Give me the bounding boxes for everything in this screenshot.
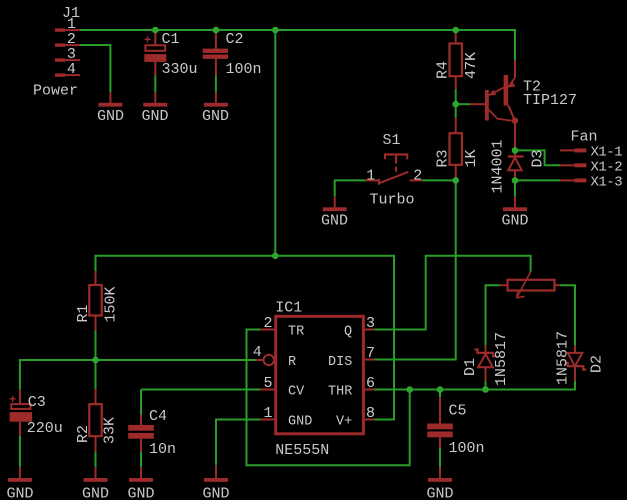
resistor R2 bbox=[89, 389, 101, 451]
svg-text:R: R bbox=[288, 355, 296, 370]
capacitor C3 bbox=[9, 390, 32, 436]
svg-text:100n: 100n bbox=[226, 61, 262, 78]
svg-text:1: 1 bbox=[264, 405, 273, 422]
wire pot left to D1 bbox=[486, 285, 500, 345]
wire R2 top bbox=[95, 360, 97, 389]
ground GND IC1 bbox=[203, 465, 230, 500]
wire Q pin3 to pot wiper bbox=[375, 256, 531, 330]
svg-text:C1: C1 bbox=[162, 31, 180, 48]
svg-text:1N5817: 1N5817 bbox=[493, 332, 510, 386]
ground GND C4 bbox=[128, 467, 155, 500]
svg-text:C2: C2 bbox=[226, 31, 244, 48]
svg-text:GND: GND bbox=[321, 213, 348, 230]
wire +12V top rail bbox=[80, 29, 515, 31]
wire R2 bottom to GND bbox=[95, 451, 97, 467]
svg-text:7: 7 bbox=[366, 345, 375, 362]
wire base node to T2 bbox=[456, 103, 470, 105]
junction T2 base node bbox=[452, 101, 459, 108]
svg-text:6: 6 bbox=[366, 375, 375, 392]
svg-text:C5: C5 bbox=[449, 403, 467, 420]
ground GND C2 bbox=[202, 92, 229, 125]
junction THR/TR bbox=[406, 386, 413, 393]
junction divider node bbox=[92, 357, 99, 364]
ground GND D3 bbox=[502, 197, 529, 230]
svg-text:GND: GND bbox=[128, 486, 155, 500]
svg-text:R3: R3 bbox=[435, 149, 452, 167]
junction R3/S1/DIS node bbox=[452, 177, 459, 184]
svg-text:100n: 100n bbox=[449, 440, 485, 457]
svg-text:1K: 1K bbox=[463, 149, 480, 167]
svg-text:TIP127: TIP127 bbox=[523, 92, 577, 109]
svg-text:NE555N: NE555N bbox=[275, 442, 329, 459]
svg-text:5: 5 bbox=[264, 375, 273, 392]
svg-text:Q: Q bbox=[344, 324, 352, 339]
svg-text:10n: 10n bbox=[149, 441, 176, 458]
junction D3 cathode bbox=[512, 147, 519, 154]
wire +12V mid rail bbox=[96, 255, 395, 257]
wire +12V rail drop to T2 emitter bbox=[514, 29, 516, 61]
pin IC1-8 V+ bbox=[365, 419, 375, 421]
wire THR row bbox=[375, 389, 576, 391]
wire R1 bottom to divider node bbox=[95, 331, 97, 361]
svg-text:D1: D1 bbox=[462, 358, 479, 376]
svg-text:R2: R2 bbox=[75, 425, 92, 443]
svg-text:D3: D3 bbox=[530, 149, 547, 167]
wire C2 mid bbox=[215, 75, 217, 92]
connector X1 Fan bbox=[560, 148, 586, 182]
svg-text:IC1: IC1 bbox=[275, 300, 302, 317]
svg-text:GND: GND bbox=[203, 486, 230, 500]
pin IC1-1 GND bbox=[260, 419, 274, 421]
junction mid rail riser bbox=[272, 253, 279, 260]
svg-text:CV: CV bbox=[288, 384, 305, 399]
wire V+ pin8 riser bbox=[375, 255, 395, 420]
potentiometer bbox=[500, 272, 560, 298]
wire base node to R3 bbox=[455, 104, 457, 118]
svg-text:4: 4 bbox=[67, 61, 76, 78]
svg-text:C3: C3 bbox=[28, 394, 46, 411]
wire D1 bottom bbox=[485, 381, 487, 390]
wire C4 top bbox=[140, 390, 142, 416]
wire C3 bottom to GND bbox=[19, 436, 21, 467]
pin IC1-4 R inverted bbox=[256, 359, 264, 361]
wire S1 pin1 to GND bbox=[335, 180, 366, 196]
junction THR/D1 bbox=[482, 386, 489, 393]
wire S1 pin2 to node bbox=[422, 179, 456, 181]
capacitor C4 bbox=[128, 415, 154, 452]
resistor R1 bbox=[89, 271, 101, 330]
wire D3 anode to X1-3 bbox=[515, 179, 560, 181]
ground GND C3 bbox=[7, 467, 34, 500]
svg-text:330u: 330u bbox=[162, 61, 198, 78]
ground GND R2 bbox=[82, 467, 109, 500]
pin IC1-2 TR bbox=[260, 329, 274, 331]
svg-text:+: + bbox=[9, 393, 16, 407]
junction top rail C1 bbox=[152, 27, 159, 34]
wire R4 bottom to base node bbox=[455, 89, 457, 104]
svg-text:4: 4 bbox=[253, 344, 262, 361]
svg-text:THR: THR bbox=[328, 384, 352, 399]
wire C1 mid bbox=[154, 75, 156, 92]
wire C5 top bbox=[439, 390, 441, 398]
ground GND C1 bbox=[142, 92, 169, 125]
svg-text:GND: GND bbox=[502, 213, 529, 230]
svg-text:GND: GND bbox=[288, 414, 312, 429]
wire TR pin2 loop bbox=[247, 330, 410, 466]
svg-text:1: 1 bbox=[366, 168, 375, 185]
wire J1 pin2 to GND bbox=[80, 45, 110, 92]
svg-text:2: 2 bbox=[264, 315, 273, 332]
wire D3 cathode to X1-2 bbox=[515, 150, 560, 165]
svg-text:1N5817: 1N5817 bbox=[555, 331, 572, 385]
wire C4 bottom to GND bbox=[140, 452, 142, 467]
transistor T2 bbox=[470, 61, 518, 151]
svg-text:GND: GND bbox=[202, 108, 229, 125]
svg-text:TR: TR bbox=[288, 324, 304, 339]
wire +12V riser x275 bbox=[274, 30, 276, 256]
junction top rail C2 bbox=[213, 27, 220, 34]
ground GND S1 bbox=[321, 197, 348, 230]
svg-text:GND: GND bbox=[97, 108, 124, 125]
diode D1 1N5817 bbox=[475, 346, 497, 381]
svg-text:8: 8 bbox=[366, 405, 375, 422]
capacitor C5 bbox=[427, 397, 453, 448]
svg-text:X1-1: X1-1 bbox=[591, 144, 623, 160]
resistor R4 bbox=[450, 30, 462, 89]
svg-text:X1-3: X1-3 bbox=[591, 174, 623, 190]
wire D2 bottom bbox=[574, 381, 576, 391]
svg-text:220u: 220u bbox=[27, 420, 63, 437]
diode D2 1N5817 bbox=[565, 346, 587, 381]
svg-text:R1: R1 bbox=[75, 304, 92, 322]
pin IC1-7 DIS bbox=[365, 359, 375, 361]
svg-text:1N4001: 1N4001 bbox=[490, 139, 507, 193]
wire 555 GND pin1 bbox=[216, 420, 260, 466]
wire DIS pin7 to R3/S1 node bbox=[375, 180, 456, 359]
wire divider row to 555 R pin bbox=[20, 359, 258, 361]
switch S1 bbox=[366, 153, 423, 184]
ground GND J1 bbox=[97, 92, 124, 125]
wire pot right to D2 bbox=[560, 285, 575, 345]
svg-text:V+: V+ bbox=[336, 414, 352, 429]
junction THR/C5 bbox=[437, 386, 444, 393]
capacitor C1 bbox=[144, 30, 166, 75]
svg-text:47K: 47K bbox=[463, 52, 480, 79]
junction top rail riser bbox=[272, 27, 279, 34]
svg-text:R4: R4 bbox=[435, 61, 452, 79]
svg-text:GND: GND bbox=[427, 486, 454, 500]
svg-text:Fan: Fan bbox=[571, 129, 598, 146]
junction top rail R4 bbox=[452, 27, 459, 34]
connector J1 bbox=[55, 28, 80, 76]
wire R1 top bbox=[95, 255, 97, 271]
wire C5 bottom bbox=[439, 448, 441, 467]
capacitor C2 bbox=[203, 30, 228, 75]
svg-text:Power: Power bbox=[33, 82, 78, 99]
svg-text:C4: C4 bbox=[149, 408, 167, 425]
diode D3 bbox=[508, 150, 524, 180]
svg-text:Turbo: Turbo bbox=[370, 192, 415, 209]
junction D3 anode bbox=[512, 177, 519, 184]
wire CV row pin5 bbox=[141, 389, 260, 391]
svg-text:2: 2 bbox=[413, 168, 422, 185]
svg-text:GND: GND bbox=[142, 108, 169, 125]
svg-text:DIS: DIS bbox=[328, 355, 352, 370]
ground GND C5 bbox=[427, 467, 454, 500]
pin IC1-3 Q bbox=[365, 329, 375, 331]
resistor R3 bbox=[450, 118, 462, 180]
svg-text:3: 3 bbox=[366, 315, 375, 332]
svg-text:+: + bbox=[144, 34, 151, 48]
svg-text:X1-2: X1-2 bbox=[591, 159, 623, 175]
IC1 NE555N box bbox=[276, 316, 364, 434]
pin IC1-6 THR bbox=[365, 389, 375, 391]
svg-text:GND: GND bbox=[82, 486, 109, 500]
svg-text:S1: S1 bbox=[383, 132, 401, 149]
wire C3 top bbox=[19, 359, 21, 390]
svg-text:GND: GND bbox=[7, 486, 34, 500]
pin IC1-5 CV bbox=[260, 389, 274, 391]
svg-text:150K: 150K bbox=[103, 286, 120, 322]
svg-text:D2: D2 bbox=[589, 355, 606, 373]
wire D3 to GND bbox=[514, 180, 516, 196]
svg-text:33K: 33K bbox=[102, 417, 119, 444]
